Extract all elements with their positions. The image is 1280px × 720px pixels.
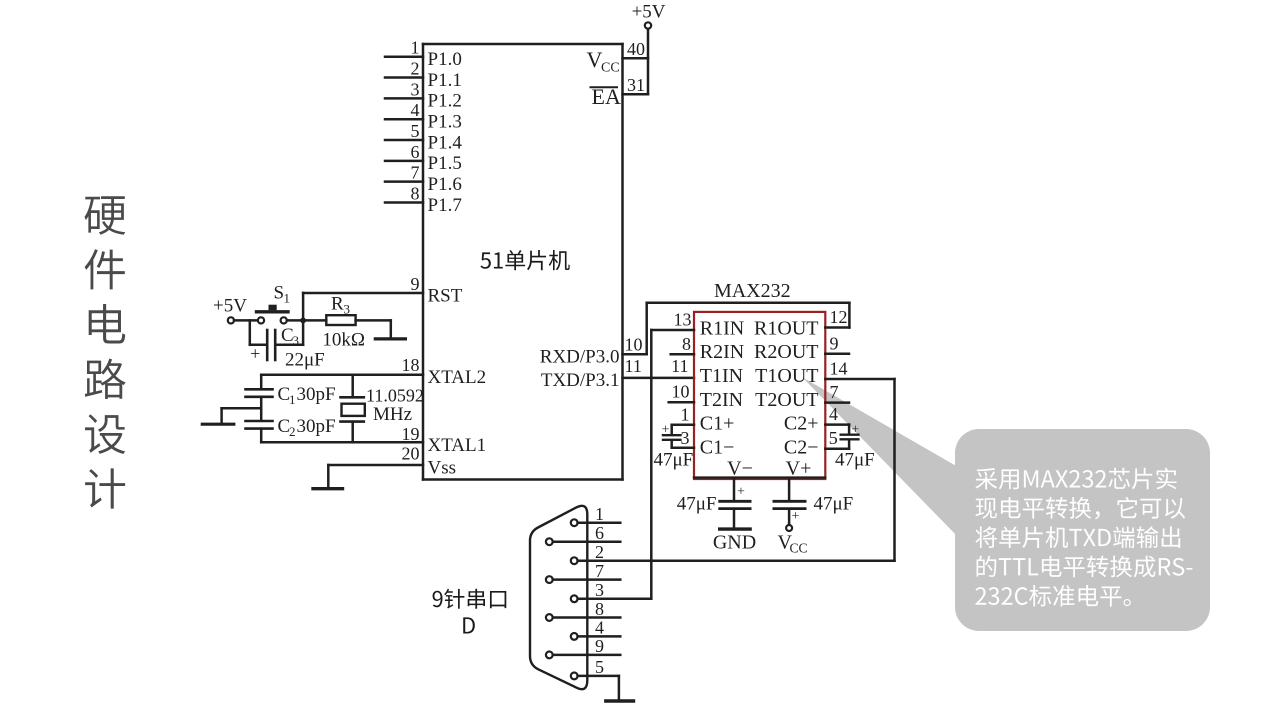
svg-text:C1+: C1+ [700, 413, 735, 435]
svg-text:Vss: Vss [428, 457, 457, 478]
svg-text:R1OUT: R1OUT [754, 318, 818, 340]
svg-text:+: + [792, 509, 800, 524]
svg-text:6: 6 [411, 142, 420, 162]
svg-text:20: 20 [402, 444, 420, 464]
svg-text:12: 12 [830, 307, 848, 327]
svg-text:4: 4 [829, 404, 838, 424]
svg-text:19: 19 [402, 424, 420, 444]
svg-text:7: 7 [830, 382, 839, 402]
svg-text:3: 3 [293, 333, 300, 348]
svg-text:10: 10 [672, 382, 690, 402]
svg-text:P1.6: P1.6 [428, 174, 462, 195]
svg-text:6: 6 [595, 523, 604, 543]
svg-text:R2OUT: R2OUT [754, 341, 818, 363]
svg-text:8: 8 [411, 184, 420, 204]
svg-text:GND: GND [713, 532, 756, 554]
svg-text:P1.5: P1.5 [428, 153, 462, 174]
svg-text:R1IN: R1IN [700, 318, 744, 340]
svg-text:P1.0: P1.0 [428, 49, 462, 70]
svg-text:C1−: C1− [700, 436, 735, 458]
svg-text:3: 3 [411, 79, 420, 99]
svg-text:8: 8 [682, 334, 691, 354]
svg-text:40: 40 [627, 39, 645, 59]
svg-text:5: 5 [411, 121, 420, 141]
svg-text:T1OUT: T1OUT [755, 365, 818, 387]
svg-text:22μF: 22μF [285, 350, 325, 371]
svg-text:31: 31 [627, 75, 645, 95]
svg-text:30pF: 30pF [297, 384, 336, 405]
svg-text:1: 1 [289, 392, 296, 407]
svg-text:R: R [331, 294, 344, 315]
svg-text:+: + [662, 423, 670, 438]
svg-text:47μF: 47μF [654, 450, 694, 471]
svg-text:P1.2: P1.2 [428, 91, 462, 112]
svg-text:3: 3 [681, 428, 690, 448]
svg-text:13: 13 [674, 310, 692, 330]
svg-text:5: 5 [829, 428, 838, 448]
svg-text:T2OUT: T2OUT [755, 389, 818, 411]
svg-text:14: 14 [830, 359, 848, 379]
svg-text:8: 8 [595, 599, 604, 619]
svg-text:+5V: +5V [213, 296, 247, 317]
svg-text:TXD/P3.1: TXD/P3.1 [541, 370, 620, 391]
svg-text:7: 7 [411, 163, 420, 183]
svg-text:R2IN: R2IN [700, 341, 744, 363]
svg-text:11: 11 [625, 356, 642, 376]
svg-text:1: 1 [411, 38, 420, 58]
svg-text:+: + [737, 485, 745, 500]
svg-text:V+: V+ [786, 458, 812, 480]
svg-text:5: 5 [595, 657, 604, 677]
svg-text:RST: RST [428, 285, 463, 306]
svg-text:T2IN: T2IN [700, 389, 743, 411]
svg-text:MAX232: MAX232 [714, 280, 791, 302]
svg-text:11: 11 [671, 356, 688, 376]
svg-text:C2+: C2+ [784, 413, 819, 435]
svg-text:CC: CC [790, 541, 808, 556]
svg-text:XTAL2: XTAL2 [428, 367, 487, 388]
svg-text:1: 1 [284, 291, 291, 306]
svg-text:2: 2 [411, 59, 420, 79]
svg-text:18: 18 [402, 355, 420, 375]
svg-text:30pF: 30pF [297, 416, 336, 437]
svg-text:+: + [851, 422, 859, 437]
svg-text:47μF: 47μF [835, 450, 875, 471]
svg-text:10kΩ: 10kΩ [322, 330, 365, 351]
svg-text:P1.4: P1.4 [428, 132, 463, 153]
svg-text:11.0592: 11.0592 [366, 386, 424, 406]
svg-text:CC: CC [601, 61, 620, 76]
svg-text:1: 1 [595, 504, 604, 524]
svg-text:10: 10 [625, 334, 643, 354]
svg-text:P1.1: P1.1 [428, 70, 462, 91]
svg-text:4: 4 [595, 618, 604, 638]
svg-text:S: S [274, 283, 285, 304]
svg-text:1: 1 [681, 404, 690, 424]
svg-text:9: 9 [595, 636, 604, 656]
svg-text:RXD/P3.0: RXD/P3.0 [540, 346, 620, 367]
svg-text:T1IN: T1IN [700, 365, 743, 387]
svg-text:3: 3 [595, 580, 604, 600]
svg-text:V−: V− [727, 458, 753, 480]
svg-text:9: 9 [411, 274, 420, 294]
svg-text:2: 2 [595, 542, 604, 562]
svg-text:7: 7 [595, 561, 604, 581]
svg-text:3: 3 [344, 302, 351, 317]
svg-text:4: 4 [411, 100, 420, 120]
svg-text:9: 9 [830, 333, 839, 353]
svg-text:2: 2 [289, 424, 296, 439]
svg-text:+5V: +5V [632, 2, 666, 23]
svg-text:P1.3: P1.3 [428, 111, 462, 132]
svg-text:47μF: 47μF [677, 494, 717, 515]
svg-text:+: + [250, 344, 260, 364]
svg-text:47μF: 47μF [814, 494, 854, 515]
svg-text:C2−: C2− [784, 436, 819, 458]
svg-text:XTAL1: XTAL1 [428, 435, 487, 456]
svg-text:MHz: MHz [373, 404, 412, 425]
svg-text:P1.7: P1.7 [428, 195, 462, 216]
